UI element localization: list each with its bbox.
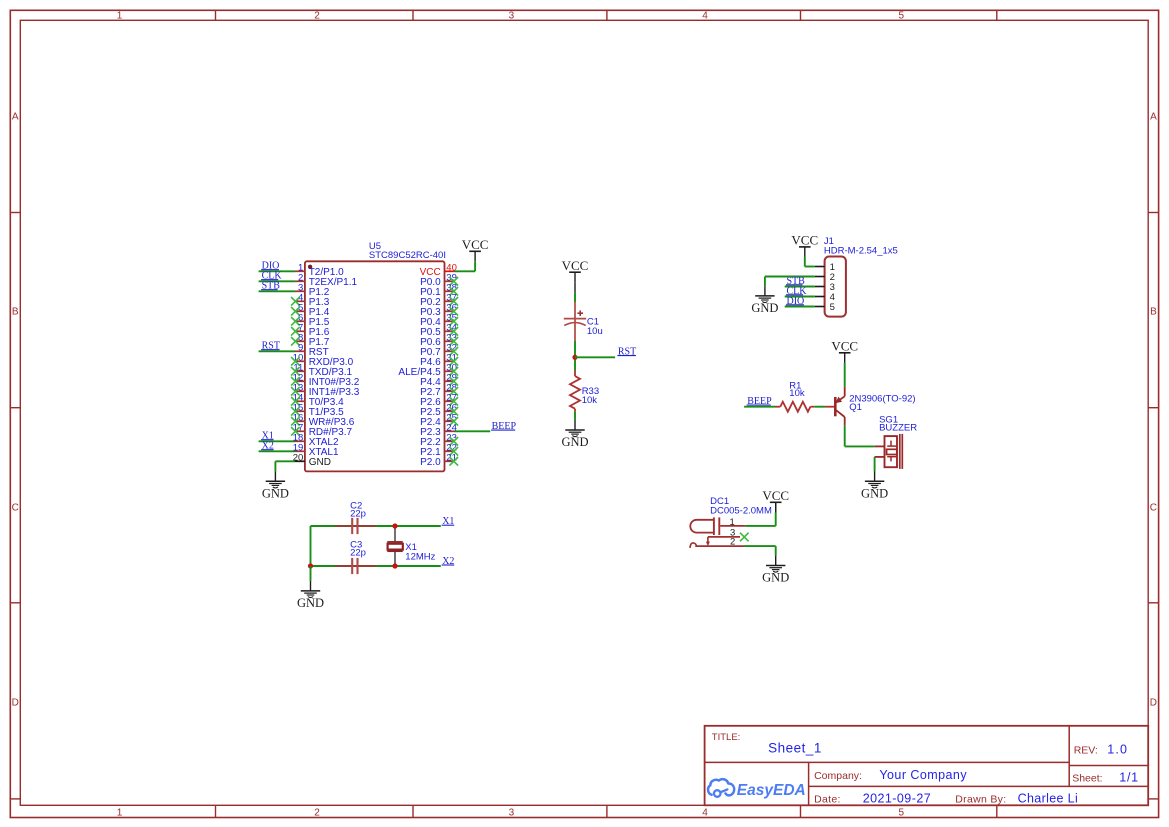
svg-text:VCC: VCC	[831, 338, 858, 353]
svg-text:VCC: VCC	[762, 488, 789, 503]
svg-text:1: 1	[117, 807, 123, 818]
svg-text:P2.0: P2.0	[420, 457, 441, 468]
svg-text:HDR-M-2.54_1x5: HDR-M-2.54_1x5	[824, 245, 898, 256]
svg-text:GND: GND	[262, 486, 289, 500]
svg-text:1: 1	[117, 10, 123, 21]
svg-text:Sheet_1: Sheet_1	[768, 740, 822, 755]
svg-text:Q1: Q1	[849, 402, 862, 413]
svg-text:GND: GND	[309, 457, 331, 468]
svg-text:4: 4	[702, 807, 708, 818]
svg-text:10u: 10u	[587, 326, 603, 337]
svg-text:1/1: 1/1	[1119, 770, 1138, 784]
svg-text:1.0: 1.0	[1107, 742, 1128, 756]
svg-text:C: C	[12, 503, 19, 514]
svg-text:5: 5	[899, 807, 905, 818]
svg-text:2: 2	[314, 807, 320, 818]
svg-text:22p: 22p	[350, 508, 366, 519]
svg-text:5: 5	[899, 10, 905, 21]
svg-text:4: 4	[702, 10, 708, 21]
svg-text:3: 3	[509, 807, 515, 818]
svg-text:BUZZER: BUZZER	[879, 423, 917, 434]
svg-text:3: 3	[509, 10, 515, 21]
svg-text:TITLE:: TITLE:	[712, 732, 741, 743]
svg-text:2: 2	[314, 10, 320, 21]
svg-text:Company:: Company:	[814, 770, 862, 782]
svg-text:2: 2	[730, 537, 735, 548]
svg-text:Date:: Date:	[814, 793, 841, 805]
svg-text:10k: 10k	[789, 388, 805, 399]
svg-text:12MHz: 12MHz	[405, 551, 435, 562]
svg-text:Your Company: Your Company	[879, 768, 967, 782]
svg-text:B: B	[12, 307, 19, 318]
svg-text:10k: 10k	[582, 395, 598, 406]
svg-text:1: 1	[730, 517, 735, 528]
svg-text:D: D	[1150, 698, 1157, 709]
svg-text:GND: GND	[751, 301, 778, 315]
svg-text:EasyEDA: EasyEDA	[737, 782, 806, 799]
svg-text:STC89C52RC-40I: STC89C52RC-40I	[369, 250, 446, 261]
svg-text:C: C	[1150, 503, 1157, 514]
svg-text:21: 21	[446, 452, 457, 463]
svg-text:A: A	[1150, 111, 1157, 122]
svg-text:GND: GND	[762, 571, 789, 585]
svg-text:2021-09-27: 2021-09-27	[863, 792, 931, 806]
svg-text:GND: GND	[861, 486, 888, 500]
svg-text:22p: 22p	[350, 548, 366, 559]
svg-text:VCC: VCC	[791, 233, 818, 248]
svg-text:VCC: VCC	[462, 237, 489, 252]
svg-text:GND: GND	[297, 596, 324, 610]
svg-text:A: A	[12, 111, 19, 122]
svg-text:D: D	[12, 698, 19, 709]
svg-text:GND: GND	[561, 435, 588, 449]
svg-text:VCC: VCC	[562, 258, 589, 273]
svg-text:5: 5	[830, 302, 835, 313]
svg-text:Charlee Li: Charlee Li	[1018, 792, 1078, 806]
svg-text:DC005-2.0MM: DC005-2.0MM	[710, 505, 772, 516]
svg-text:Sheet:: Sheet:	[1072, 772, 1102, 784]
svg-text:REV:: REV:	[1074, 744, 1098, 756]
svg-text:Drawn By:: Drawn By:	[955, 793, 1006, 805]
svg-text:B: B	[1150, 307, 1157, 318]
